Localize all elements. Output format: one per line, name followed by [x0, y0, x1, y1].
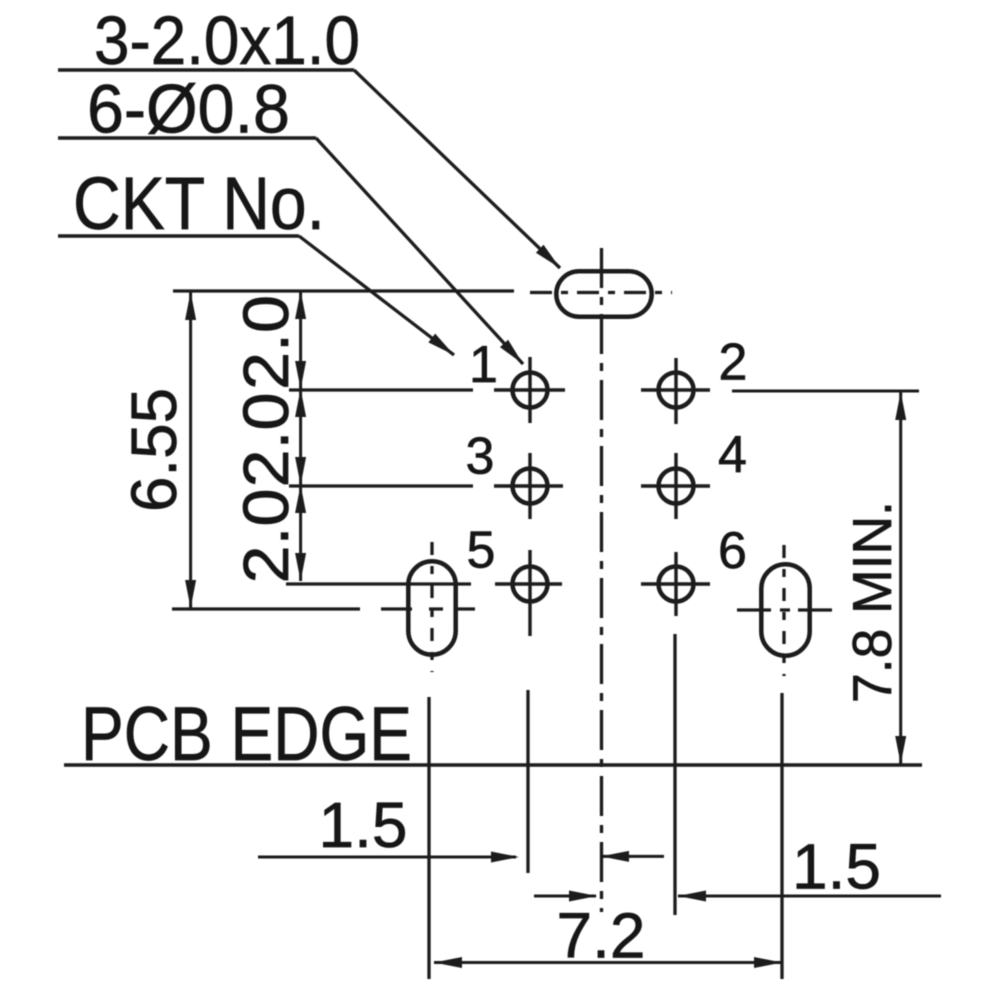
6.55 dimension top reference line [173, 289, 514, 292]
svg-text:1.5: 1.5 [319, 789, 408, 861]
svg-text:3: 3 [466, 428, 495, 486]
svg-text:7.2: 7.2 [557, 900, 646, 972]
2.0 chain arrowhead up at top line [295, 291, 306, 319]
1.5 right dimension line [678, 895, 941, 898]
2.0 chain arrowheads at row 1 [295, 361, 306, 389]
svg-text:6.55: 6.55 [118, 388, 190, 512]
svg-text:3-2.0x1.0: 3-2.0x1.0 [94, 2, 360, 79]
7.2 left arrowhead [434, 957, 462, 968]
svg-text:4: 4 [718, 426, 747, 484]
svg-text:2.0: 2.0 [230, 489, 302, 584]
arrowhead of 3-2.0x1.0 leader pointing to slot [536, 245, 560, 268]
7.2 dimension line [434, 961, 782, 964]
centerline left-pointing arrowhead [601, 851, 629, 862]
row 1 extension line [289, 388, 473, 391]
arrowhead of 6-Ø0.8 leader pointing to hole 1 [500, 340, 523, 364]
PCB edge line [64, 763, 922, 766]
svg-text:5: 5 [467, 522, 496, 580]
hole 1 circle [513, 373, 548, 408]
hole 2 crosshair [641, 388, 710, 391]
hole 1 crosshair [494, 388, 565, 391]
row 3 extension line [289, 484, 473, 487]
leader underline for 6-Ø0.8 [58, 136, 316, 139]
svg-text:7.8 MIN.: 7.8 MIN. [841, 501, 903, 703]
2.0 pitch chain dimension line [299, 291, 302, 581]
centerline right-pointing arrowhead [569, 891, 597, 902]
hole 6 extension line below [673, 634, 676, 915]
7.8 MIN up arrowhead [895, 392, 906, 420]
left oval extension line below [427, 697, 430, 979]
left oval horizontal dashed centerline [381, 607, 476, 610]
row 5 extension line [286, 582, 471, 585]
leader underline for CKT No. [58, 234, 299, 237]
hole 2 circle [659, 373, 694, 408]
2.0 chain arrowheads at row 3 [295, 457, 306, 485]
leader diagonal for 3-2.0x1.0 [354, 70, 560, 268]
leader diagonal for CKT No. [299, 236, 454, 355]
svg-text:6: 6 [718, 522, 747, 580]
right oval horizontal dashed centerline [737, 608, 832, 611]
hole 3 crosshair [494, 484, 563, 487]
left oval vertical dashed centerline [430, 542, 433, 672]
svg-text:CKT No.: CKT No. [73, 162, 325, 245]
leader underline for 3-2.0x1.0 [58, 68, 354, 71]
svg-text:2.0: 2.0 [230, 393, 302, 488]
svg-text:1: 1 [469, 336, 498, 394]
right oval extension line below [780, 693, 783, 979]
hole 5 crosshair [495, 582, 562, 585]
6.55 vertical dimension line [189, 292, 192, 608]
svg-text:6-Ø0.8: 6-Ø0.8 [87, 71, 290, 148]
7.2 right arrowhead [754, 957, 782, 968]
7.8 MIN down arrowhead [895, 736, 906, 764]
1.5 left dimension line [258, 856, 516, 859]
6.55 dimension bottom reference line [172, 607, 360, 610]
hole 6 circle [659, 567, 694, 602]
slot top mounting hole 2.0x1.0 [556, 271, 651, 316]
centerline to hole6 dimension line [601, 855, 664, 858]
left oval mounting slot [408, 561, 455, 654]
main vertical dash-dot centerline [600, 248, 603, 912]
1.5 left right-pointing arrowhead [491, 852, 519, 863]
svg-text:1.5: 1.5 [792, 830, 881, 902]
leader diagonal for 6-Ø0.8 [316, 138, 523, 364]
6.55 up arrowhead [185, 292, 196, 320]
svg-text:2.0: 2.0 [230, 295, 302, 390]
1.5 right left-pointing arrowhead [678, 891, 706, 902]
hole 3 circle [513, 469, 548, 504]
hole 5 extension line below [526, 690, 529, 873]
arrowhead of CKT No. leader pointing to circuit number 1 [428, 334, 454, 355]
slot horizontal dashed centerline [530, 291, 672, 294]
hole 4 circle [659, 469, 694, 504]
hole 5 circle [513, 567, 548, 602]
svg-text:2: 2 [719, 334, 748, 392]
right oval mounting slot [761, 564, 809, 655]
hole 6 crosshair [641, 582, 710, 585]
hole5 to centerline dimension line [534, 895, 596, 898]
7.8 MIN top reference line [732, 390, 919, 393]
right oval vertical dashed centerline [782, 545, 785, 676]
hole 4 crosshair [641, 484, 710, 487]
7.8 MIN vertical dimension line [899, 392, 902, 764]
2.0 chain arrowhead down at row 5 [295, 553, 306, 581]
6.55 down arrowhead [185, 580, 196, 608]
